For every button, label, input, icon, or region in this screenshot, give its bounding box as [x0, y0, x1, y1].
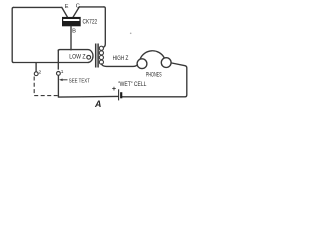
phones right earpiece [161, 58, 171, 68]
terminal 2 circle [34, 72, 38, 76]
battery B1 long plate (+) [118, 89, 120, 100]
transformer T1 core lamination lines [96, 44, 98, 68]
svg-text:SEE TEXT: SEE TEXT [69, 79, 90, 85]
phones headband arc [140, 51, 164, 59]
junction base lead / racetrack top [70, 49, 72, 51]
wire racetrack left end down to terminal 1 [57, 50, 59, 70]
svg-text:PHONES: PHONES [146, 73, 162, 79]
svg-text:LOW Z: LOW Z [69, 53, 85, 60]
transistor Q1 collector lead [73, 7, 79, 17]
svg-text:2: 2 [39, 69, 42, 75]
scan speck [130, 33, 132, 35]
transistor Q1 emitter lead [62, 7, 68, 17]
dashed sensor vertical (see text) [33, 77, 35, 96]
wire bottom horizontal rail [14, 62, 89, 64]
battery B1 short thick plate (-) [120, 92, 122, 98]
transistor Q1 base lead [70, 26, 72, 49]
phones left earpiece [137, 59, 147, 69]
wire phones right to right rail [122, 63, 187, 97]
transistor Q1 CK722 body [62, 17, 81, 26]
svg-text:A: A [94, 99, 101, 109]
transformer T1 high-Z winding loops [99, 46, 103, 64]
wire terminal 1 down to battery rail [57, 75, 59, 97]
wire collector right vertical down to transformer [103, 7, 105, 47]
terminal 1 circle [57, 72, 61, 76]
wire high-Z winding bottom to phones [101, 64, 137, 66]
wire top horizontal (left rail to emitter) [14, 6, 62, 8]
dashed sensor horizontal (see text) [34, 95, 58, 97]
svg-text:+: + [112, 84, 116, 93]
see-text arrow [61, 79, 68, 81]
svg-text:C: C [76, 4, 80, 10]
terminal 2 lead [35, 63, 37, 72]
svg-text:"WET" CELL: "WET" CELL [118, 81, 147, 88]
wire collector top horizontal [79, 6, 104, 8]
svg-text:CK722: CK722 [83, 18, 98, 25]
transformer T1 low-Z winding end loop [87, 55, 91, 59]
wire battery to terminal 1 [58, 95, 118, 98]
svg-text:1: 1 [61, 69, 64, 75]
junction racetrack-left / bottom rail [57, 62, 59, 64]
svg-text:B: B [72, 29, 76, 35]
transformer T1 low-Z winding loop (racetrack) [58, 50, 93, 63]
wire left vertical rail [12, 7, 13, 62]
svg-text:HIGH Z: HIGH Z [113, 55, 129, 62]
svg-text:E: E [65, 4, 69, 10]
